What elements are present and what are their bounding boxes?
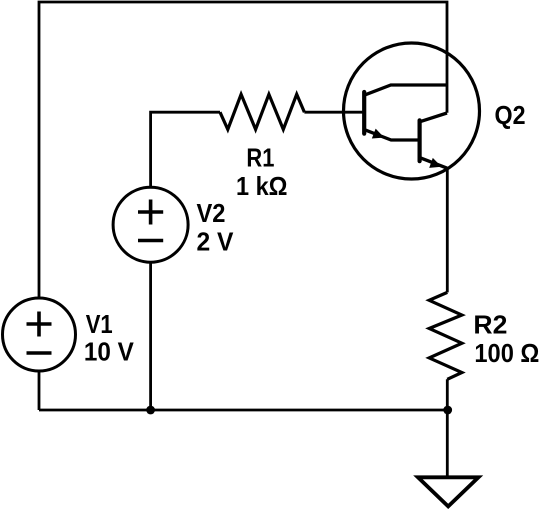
label V2 2 V [197, 198, 235, 257]
label R2 100 Ω [473, 309, 539, 368]
wire: Q2 emitter to R2 [446, 167, 449, 292]
Q2 output transistor emitter [420, 158, 448, 169]
svg-text:10 V: 10 V [84, 337, 135, 367]
wire: left branch + top rail + collector drop [39, 2, 447, 298]
resistor R2 [429, 292, 462, 379]
wire: V2 bottom stem [149, 262, 152, 410]
svg-text:100 Ω: 100 Ω [474, 338, 539, 368]
ground [418, 477, 479, 506]
label R1 1 kΩ [236, 143, 288, 201]
svg-text:1 kΩ: 1 kΩ [236, 171, 288, 201]
label V1 10 V [84, 309, 135, 367]
wire: V1 bottom to ground rail [38, 371, 41, 410]
voltage source V1 [3, 298, 76, 371]
Q2 input emitter arrow [372, 129, 384, 139]
wire: bottom ground rail [39, 409, 448, 412]
svg-text:2 V: 2 V [197, 226, 235, 256]
wire: R2 bottom through node to ground [446, 379, 449, 477]
resistor R1 [220, 94, 304, 129]
transistor Q2 (Darlington pair) envelope circle [344, 43, 480, 179]
node: junction dot (V2 / rail) [146, 406, 155, 415]
voltage source V2 [113, 187, 188, 262]
Q2 input transistor emitter [364, 130, 419, 140]
wire: V2 top stem to R1 [151, 112, 220, 188]
svg-text:V2: V2 [197, 198, 226, 228]
svg-text:R1: R1 [246, 143, 274, 173]
Q2 input transistor collector [364, 85, 447, 95]
svg-text:R2: R2 [473, 309, 507, 339]
Q2 output transistor base bar [418, 120, 422, 161]
Q2 output emitter arrow [429, 158, 441, 168]
Q2 input transistor base bar [362, 92, 366, 134]
wire: R1 to Q2 base [304, 111, 365, 114]
svg-text:Q2: Q2 [495, 100, 526, 130]
node: junction dot (R2 / rail / ground) [443, 406, 452, 415]
svg-text:V1: V1 [86, 309, 113, 339]
Q2 output transistor collector [420, 113, 447, 122]
